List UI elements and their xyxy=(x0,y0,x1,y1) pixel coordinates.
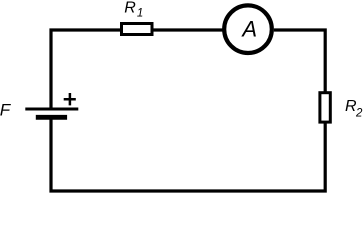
svg-text:1: 1 xyxy=(137,7,143,19)
svg-text:A: A xyxy=(240,17,257,42)
wire between R1 and ammeter xyxy=(153,28,223,31)
resistor R2 xyxy=(320,93,330,122)
battery F plate negative short xyxy=(36,115,67,120)
battery F plate positive long xyxy=(25,107,78,110)
wire left+top segment xyxy=(51,30,121,108)
wire ammeter to top-right corner down to R2 xyxy=(274,30,325,92)
wire R2 bottom, bottom side, up to battery xyxy=(51,120,325,192)
svg-text:R: R xyxy=(124,0,136,17)
svg-text:2: 2 xyxy=(355,107,363,119)
ammeter U1 xyxy=(224,5,272,53)
svg-text:F: F xyxy=(0,101,12,120)
resistor R1 xyxy=(122,24,153,35)
plus polarity mark xyxy=(64,93,76,105)
